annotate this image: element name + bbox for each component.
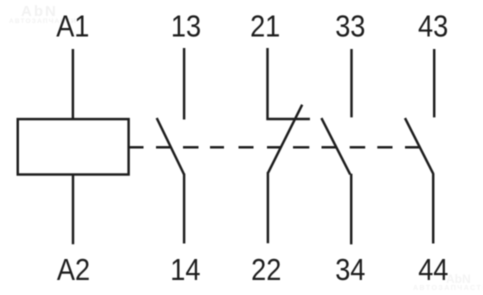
contact NO arm 33-34 (321, 118, 350, 174)
linkage dashed line segment 1 (129, 146, 144, 148)
linkage dashed line segment 3 (183, 146, 199, 148)
svg-text:43: 43 (418, 10, 448, 44)
wire terminal 34 (350, 174, 352, 245)
linkage dashed line segment 10 (377, 146, 392, 148)
linkage dashed line segment 7 (293, 146, 309, 148)
wire terminal 43 (433, 49, 435, 117)
contact NO arm 43-44 (405, 118, 433, 174)
linkage dashed line segment 11 (405, 146, 419, 148)
linkage dashed line segment 6 (267, 146, 281, 148)
wire terminal 21 (268, 48, 310, 119)
contact NC arm 21-22 (268, 105, 302, 173)
contact NO arm 13-14 (157, 118, 184, 175)
svg-text:14: 14 (170, 253, 200, 287)
linkage dashed line segment 9 (350, 146, 366, 148)
wire terminal 14 (183, 174, 185, 244)
linkage dashed line segment 4 (210, 146, 224, 148)
svg-text:13: 13 (171, 10, 201, 44)
svg-text:A2: A2 (57, 253, 90, 287)
coil K1 rectangle (18, 119, 129, 174)
watermark top-left (9, 3, 77, 25)
wire A2 terminal (72, 175, 74, 245)
wire A1 terminal (72, 49, 74, 119)
wire terminal 22 (267, 172, 269, 243)
wire terminal 44 (432, 173, 434, 243)
watermark bottom-right (413, 272, 483, 292)
svg-text:A1: A1 (56, 10, 89, 44)
linkage dashed line segment 2 (156, 146, 170, 148)
linkage dashed line segment 8 (322, 146, 337, 148)
svg-text:34: 34 (335, 253, 365, 287)
wire terminal 33 (350, 49, 352, 117)
svg-text:21: 21 (250, 10, 280, 44)
wire terminal 13 (183, 48, 185, 120)
svg-text:22: 22 (251, 253, 281, 287)
linkage dashed line segment 5 (239, 146, 254, 148)
svg-text:44: 44 (418, 253, 448, 287)
svg-text:AbN: AbN (446, 272, 471, 286)
svg-text:33: 33 (335, 10, 365, 44)
